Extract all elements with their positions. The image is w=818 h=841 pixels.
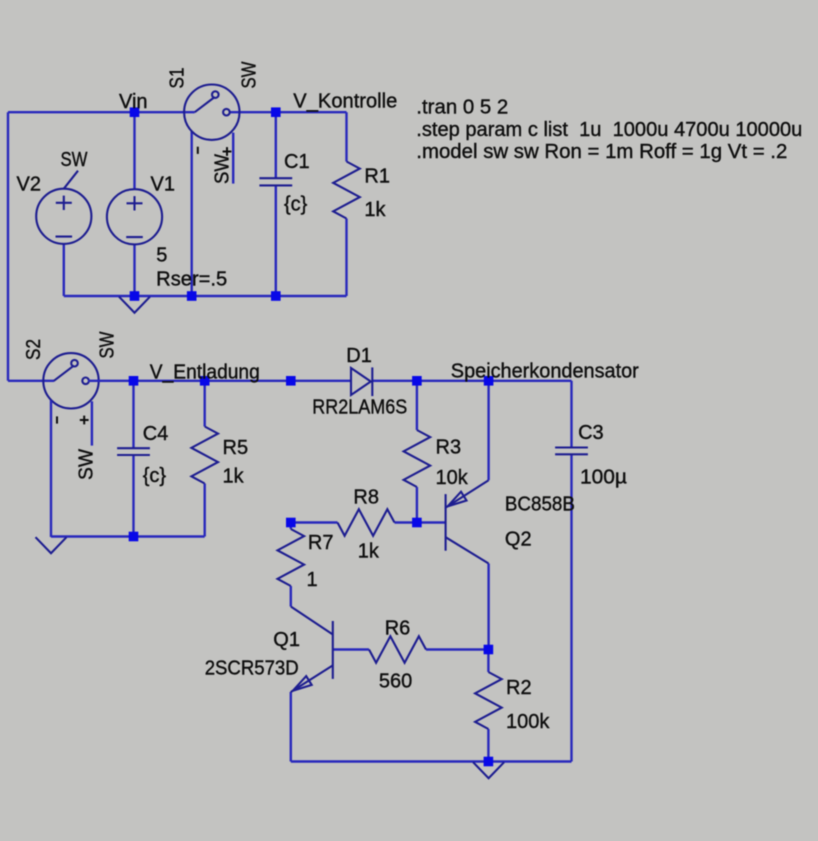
diode D1 [351, 367, 372, 396]
wire S2 plus control stub [91, 401, 93, 445]
svg-text:D1: D1 [346, 345, 372, 367]
svg-text:2SCR573D: 2SCR573D [205, 658, 299, 680]
wire S2 lead-in [8, 380, 54, 382]
wire bottom rail [291, 760, 572, 762]
svg-text:S1: S1 [167, 68, 189, 89]
resistor R5 [191, 427, 218, 484]
svg-text:560: 560 [379, 670, 412, 692]
ground S2 control [36, 537, 67, 553]
svg-text:R2: R2 [506, 677, 532, 699]
svg-text:Speicherkondensator: Speicherkondensator [451, 361, 639, 383]
wire Q2 base lead [417, 521, 446, 523]
net flag SW on V2 [64, 171, 78, 189]
node junction Q2 base R3 [412, 518, 422, 528]
ground top circuit [119, 297, 150, 313]
svg-text:{c}: {c} [143, 465, 167, 487]
svg-text:10k: 10k [436, 467, 469, 489]
capacitor C3 [555, 448, 588, 455]
wire S2 minus control to rail [50, 400, 52, 537]
wire C3 top lead [570, 381, 572, 448]
svg-text:.tran 0 5 2: .tran 0 5 2 [416, 96, 508, 118]
wire S1 minus control to rail [190, 131, 192, 296]
wire Q2 collector vertical [487, 564, 489, 650]
S1 plus mark [223, 147, 232, 156]
svg-text:Vin: Vin [119, 91, 148, 113]
node gnd junction C1 bottom [271, 291, 281, 301]
wire R7 top lead [290, 523, 292, 530]
capacitor C4 [117, 448, 150, 455]
svg-text:100k: 100k [506, 711, 550, 733]
wire R7 bottom lead [290, 586, 292, 607]
wire R8 left lead [291, 521, 338, 523]
node junction R7 R8 [286, 518, 296, 528]
resistor R6 [369, 636, 426, 663]
resistor R8 [338, 509, 395, 536]
svg-text:SW: SW [97, 331, 119, 358]
resistor R7 [277, 529, 304, 586]
svg-text:1k: 1k [364, 199, 386, 221]
switch S1 [184, 85, 239, 140]
node gnd junction S1 control [187, 291, 197, 301]
S1 minus mark [197, 147, 199, 154]
svg-text:Q1: Q1 [273, 629, 300, 651]
svg-text:{c}: {c} [284, 194, 308, 216]
svg-text:5: 5 [156, 245, 167, 267]
switch S2 [43, 353, 98, 408]
svg-text:C1: C1 [284, 151, 310, 173]
capacitor C1 [259, 178, 292, 185]
svg-text:.model sw sw Ron = 1m Roff = 1: .model sw sw Ron = 1m Roff = 1g Vt = .2 [416, 141, 787, 163]
svg-text:V_Entladung: V_Entladung [150, 361, 260, 383]
node V_Kontrolle junction C1 top [271, 107, 281, 117]
wire top rail Vin [8, 111, 195, 113]
wire C1 bottom lead [275, 185, 277, 296]
svg-text:100µ: 100µ [580, 466, 627, 488]
node junction bottom rail ground [484, 757, 494, 767]
wire Q2 emitter vertical [487, 381, 489, 481]
wire Q1 emitter vertical [290, 692, 292, 762]
wire R5 top lead [203, 381, 205, 427]
resistor R1 [333, 162, 360, 219]
svg-text:SW: SW [212, 154, 234, 184]
svg-text:R3: R3 [436, 436, 462, 458]
svg-text:R6: R6 [385, 617, 411, 639]
node junction D1 anode branch [286, 376, 296, 386]
node gnd junction V1 bottom [130, 291, 140, 301]
node Vin junction [130, 107, 140, 117]
ground bottom rail [473, 762, 504, 778]
wire C4 bottom lead [132, 455, 134, 536]
wire left rail [7, 112, 9, 381]
wire bottom-left rail [51, 535, 205, 537]
wire C4 top lead [132, 381, 134, 448]
node junction R6 R2 Q2 collector [484, 645, 494, 655]
voltage source V1 [107, 189, 162, 244]
wire S2 to D1 anode rail [88, 380, 351, 382]
wire V1 top lead [133, 112, 135, 190]
wire V2 bottom lead [63, 244, 65, 296]
svg-text:BC858B: BC858B [505, 493, 575, 515]
svg-text:S2: S2 [23, 339, 45, 360]
wire Q1 base lead [333, 648, 369, 650]
svg-text:C3: C3 [578, 422, 604, 444]
wire D1 cathode to C3 rail [372, 380, 571, 382]
wire R3 top lead [416, 381, 418, 430]
wire S1 to V_Kontrolle rail [230, 111, 347, 113]
wire C1 top lead [275, 112, 277, 178]
node junction R5 top [200, 376, 210, 386]
S2 minus mark [56, 416, 58, 423]
wire V1 bottom lead [133, 244, 135, 296]
transistor Q1 [291, 607, 333, 693]
wire top circuit bottom rail [64, 295, 347, 297]
svg-text:R5: R5 [223, 437, 249, 459]
wire S1 plus control stub [232, 133, 234, 184]
wire R2 top lead [487, 650, 489, 673]
svg-text:1k: 1k [358, 540, 380, 562]
wire R3 bottom lead [416, 487, 418, 523]
svg-text:R7: R7 [308, 532, 334, 554]
wire R8 right lead [395, 521, 417, 523]
wire R5 bottom lead [203, 484, 205, 537]
voltage source V2 [36, 189, 91, 244]
svg-text:V1: V1 [151, 174, 175, 196]
wire R1 top lead [345, 112, 347, 161]
wire R2 bottom lead [487, 729, 489, 762]
wire C3 bottom lead [570, 454, 572, 761]
svg-text:1k: 1k [223, 466, 245, 488]
svg-text:Rser=.5: Rser=.5 [156, 268, 227, 290]
svg-text:.step param c list 1u 1000u: .step param c list 1u 1000u 4700u 10000u [416, 119, 802, 141]
svg-text:R8: R8 [353, 486, 379, 508]
resistor R3 [404, 430, 431, 487]
wire R6 right lead [426, 648, 488, 650]
transistor Q2 [446, 480, 489, 563]
svg-text:Q2: Q2 [505, 528, 532, 550]
svg-text:1: 1 [307, 569, 318, 591]
svg-text:R1: R1 [364, 165, 390, 187]
node junction C4 bottom [129, 532, 139, 542]
node V_Entladung junction C4 top [129, 376, 139, 386]
svg-text:V_Kontrolle: V_Kontrolle [293, 91, 397, 113]
S2 plus mark [80, 416, 89, 425]
svg-text:V2: V2 [17, 174, 41, 196]
svg-text:SW: SW [76, 449, 98, 480]
node Speicherkondensator junction [484, 376, 494, 386]
svg-text:SW: SW [239, 61, 261, 88]
wire R1 bottom lead [345, 219, 347, 297]
svg-text:RR2LAM6S: RR2LAM6S [312, 397, 407, 419]
svg-text:SW: SW [61, 149, 88, 171]
node junction R3 top [412, 376, 422, 386]
resistor R2 [475, 672, 502, 729]
svg-text:C4: C4 [143, 423, 169, 445]
